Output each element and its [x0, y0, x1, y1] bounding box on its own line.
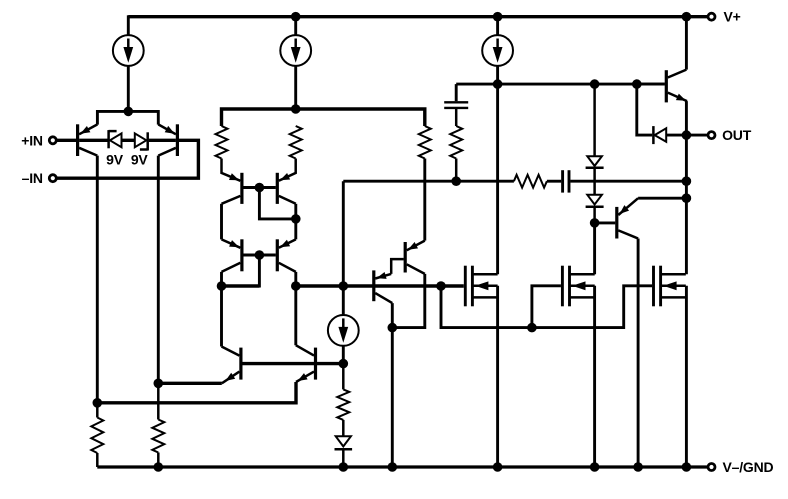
svg-text:–IN: –IN [22, 170, 43, 186]
wire Q4 collector to Q6 emitter [294, 204, 297, 240]
node M2 source / bottom rail [590, 462, 600, 472]
label OUT [722, 127, 752, 143]
wire Q11 base lead [595, 221, 616, 224]
label -IN [22, 170, 43, 186]
terminal V+ [708, 13, 715, 20]
wire second-stage node [222, 284, 260, 287]
transistor Q1 (+IN input PNP) [78, 124, 98, 156]
node Q9 collector / bottom rail [388, 462, 398, 472]
wire clamp diode drop [637, 84, 652, 135]
wire Q1 base to zener Z1 [79, 139, 107, 142]
transistor Q4 (mirror PNP) [277, 159, 296, 204]
wire output column [685, 135, 688, 274]
wire D4 to OUT node [666, 134, 683, 137]
wire Q9 emitter to Q10 base [391, 259, 404, 274]
wire CS2 top stub [294, 17, 297, 36]
wire +IN to Q1 base [56, 139, 76, 142]
node D3 / bottom rail [339, 462, 349, 472]
terminal V-/GND [708, 464, 715, 471]
wire comp line left [343, 180, 514, 183]
wire CS3 bottom stub [496, 66, 499, 84]
wire Q2 base to zener Z2 [149, 139, 176, 142]
label Z1 9V [106, 151, 124, 167]
wire I3 column down to M1 drain [496, 84, 499, 274]
wire D2 to Q11 base node [593, 207, 596, 223]
wire Q7-Q8 base line [242, 362, 343, 365]
transistor Q9 (driver PNP) [374, 270, 393, 303]
label V+ [724, 9, 741, 25]
node input emitters / I1 [124, 107, 134, 117]
terminal +IN [49, 137, 56, 144]
wire input pair emitter tent [97, 111, 158, 124]
capacitor C2 [563, 170, 569, 192]
current source I3 [482, 35, 513, 66]
wire stack to M2 drain [593, 223, 596, 274]
wire Q10 collector tie [392, 274, 425, 328]
wire base tie to Q4 collector [259, 188, 295, 219]
transistor Q8 (feedback NPN) [296, 345, 316, 382]
node Q2 collector / Q5 emitter return [154, 379, 164, 389]
node Q9-Q10 collectors [388, 323, 398, 333]
node Q4 collector / base tie [291, 214, 301, 224]
mosfet M2 [562, 266, 594, 307]
label +IN [21, 132, 43, 148]
svg-text:OUT: OUT [722, 127, 752, 143]
node main bus / gate drop [436, 281, 446, 291]
resistor R4 (Q4 emitter) [290, 126, 302, 159]
transistor Q5 (cascode PNP) [222, 239, 242, 272]
wire Q12 emitter down [685, 101, 688, 135]
wire OUT to terminal [686, 134, 708, 137]
node R6 / comp line [451, 176, 461, 186]
wire C2 to output node [570, 180, 686, 183]
label Z2 9V [131, 151, 149, 167]
transistor Q2 (-IN input PNP) [158, 124, 177, 156]
wire Q3-Q4 base tie [243, 186, 275, 189]
resistor R2 (Q2 collector load) [152, 383, 164, 467]
svg-text:9V: 9V [131, 151, 149, 167]
node Q11 base [590, 218, 600, 228]
mosfet M3 [654, 266, 686, 307]
node Q7-Q8 bases / I4 [339, 359, 349, 369]
wire Q9 collector down [391, 303, 394, 467]
resistor R7 (bias) [337, 364, 349, 437]
wire comp node riser [342, 181, 345, 286]
wire V-/GND bottom rail [97, 465, 708, 468]
wire R8 to C2 [547, 180, 561, 183]
node Q12 collector / V+ rail [682, 12, 692, 22]
wire I4 bottom stub [342, 346, 345, 364]
node Q5-Q6 bases [255, 250, 265, 260]
transistor Q12 (output NPN) [666, 70, 687, 103]
wire Q8 emitter to R1 node [97, 382, 296, 403]
wire M1 source-body down [496, 286, 499, 467]
current source I2 [280, 35, 311, 66]
node bias / I3 [493, 79, 503, 89]
diode D1 [586, 156, 604, 168]
node OUT junction [682, 130, 692, 140]
wire zener mid link [122, 139, 135, 142]
node gate bus / M2 riser [527, 323, 537, 333]
wire main gate bus [296, 284, 464, 287]
mosfet M1 [465, 266, 497, 307]
node Q11 collector / bottom rail [633, 462, 643, 472]
node Q1 collector / Q6 emitter return [93, 398, 103, 408]
current source I1 [113, 35, 144, 66]
wire CS3 top stub [496, 17, 499, 36]
transistor Q10 (gain PNP) [405, 241, 425, 274]
svg-text:V+: V+ [724, 9, 741, 25]
wire I4 top stub [342, 286, 345, 315]
node M1 source / bottom rail [493, 462, 503, 472]
wire Q5-Q6 base tie [243, 254, 275, 257]
wire I2 emitter-resistor rail [222, 109, 425, 126]
terminal -IN [49, 175, 56, 182]
resistor R1 (Q1 collector load) [91, 403, 103, 467]
wire V+ top rail [128, 15, 708, 18]
node bias / clamp drop [632, 79, 642, 89]
node Q6 collector node [291, 281, 301, 291]
wire CS1 to input pair emitters [127, 66, 130, 112]
resistor R8 (comp series) [514, 175, 547, 188]
transistor Q7 (feedback NPN) [222, 347, 241, 384]
zener diode Z1 (9V) [109, 130, 122, 148]
wire M2 source-body down [593, 286, 596, 467]
node bias / diode stack [590, 79, 600, 89]
wire CS1 top stub [127, 15, 130, 35]
node Q3-Q4 bases [255, 183, 265, 193]
wire D1-D2 link [593, 168, 596, 195]
resistor R3 (Q3 emitter) [216, 126, 228, 159]
svg-text:9V: 9V [106, 151, 124, 167]
wire base tie to Q5 collector [222, 255, 260, 286]
node top rail / I3 [493, 12, 503, 22]
wire Q11 collector down [637, 239, 640, 468]
label V-/GND [723, 459, 774, 475]
node I2 rail [291, 104, 301, 114]
transistor Q3 (mirror PNP) [222, 159, 242, 204]
zener diode Z2 (9V) [135, 132, 148, 150]
wire Q12 collector up [685, 17, 688, 70]
wire Q11 emitter to output column [638, 197, 686, 200]
resistor R5 (Q10 emitter) [419, 126, 431, 159]
wire Q3 collector to Q5 emitter [220, 204, 223, 240]
wire CS2 bottom stub [294, 66, 297, 109]
wire Q6 collector down [294, 272, 297, 345]
node comp / output column [682, 176, 692, 186]
wire Q2 collector down [157, 156, 160, 384]
wire Q1 collector down [96, 156, 99, 403]
terminal OUT [708, 132, 715, 139]
capacitor C1 [444, 102, 468, 108]
wire bias to Q12 base [637, 83, 665, 86]
wire M3 source-body down [685, 286, 688, 467]
wire Q5 collector down [220, 272, 223, 347]
current source I4 [328, 315, 359, 346]
diode D4 (output clamp) [653, 126, 666, 144]
wire M2 gate riser [532, 286, 561, 328]
transistor Q11 (clamp PNP) [617, 198, 638, 238]
resistor R6 (comp) [450, 109, 462, 181]
capacitor C1 top lead [455, 84, 458, 101]
wire bias line [456, 83, 665, 86]
node top rail / I2 [291, 12, 301, 22]
node M3 source / bottom rail [682, 462, 692, 472]
wire Q10 emitter up [423, 159, 426, 241]
node Q11 emitter / output column [682, 193, 692, 203]
diode D3 (bias) [335, 436, 353, 467]
node Q5 collector node [217, 281, 227, 291]
svg-text:+IN: +IN [21, 132, 43, 148]
wire stack top lead [593, 84, 596, 156]
wire Q7 emitter to R2 node [158, 382, 222, 385]
wire -IN to Q2 base [56, 140, 198, 178]
node comp riser / main node [339, 281, 349, 291]
wire gate bus drop [441, 286, 652, 328]
transistor Q6 (cascode PNP) [277, 239, 296, 272]
node R2 / bottom rail [154, 462, 164, 472]
svg-text:V–/GND: V–/GND [723, 459, 774, 475]
diode D2 [586, 195, 604, 207]
